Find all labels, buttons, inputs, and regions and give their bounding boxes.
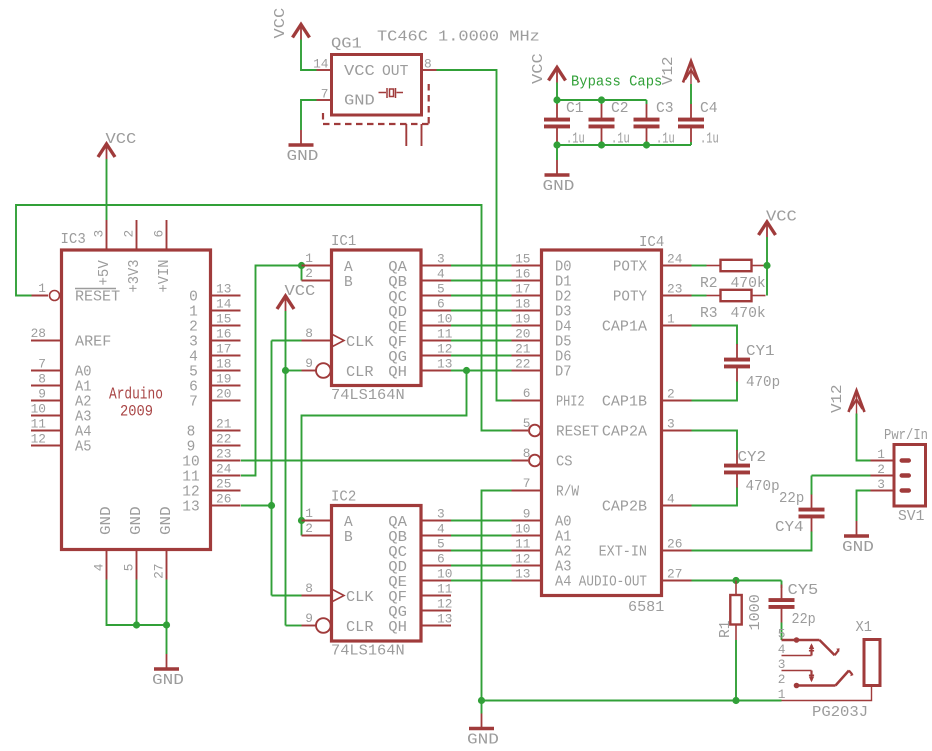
svg-text:3: 3: [189, 335, 198, 351]
svg-text:27: 27: [667, 567, 682, 582]
IC 74LS164N IC1 box: [332, 250, 422, 386]
wire QH to IC2 A B cascade: [302, 371, 467, 536]
wire VCC bus top of bypass caps: [557, 83, 647, 105]
svg-text:10: 10: [182, 455, 199, 471]
svg-text:1: 1: [778, 687, 786, 702]
svg-text:1000: 1000: [747, 594, 764, 630]
svg-text:RESET: RESET: [75, 290, 120, 306]
junction bottom bus at C2: [598, 141, 605, 148]
svg-text:6581: 6581: [628, 599, 664, 616]
svg-text:POTY: POTY: [613, 290, 647, 306]
IC3 right pins 13-20 digital 0-7: [189, 282, 240, 411]
svg-text:CAP1B: CAP1B: [602, 395, 647, 411]
svg-text:3: 3: [778, 657, 786, 672]
svg-text:2: 2: [778, 672, 786, 687]
svg-text:2: 2: [189, 320, 198, 336]
capacitor CY2: [724, 449, 766, 488]
svg-text:CLK: CLK: [346, 335, 374, 351]
svg-text:17: 17: [515, 282, 530, 297]
svg-text:A5: A5: [75, 440, 92, 456]
svg-text:GND: GND: [152, 672, 184, 689]
wire R/W to ground bus: [482, 491, 512, 701]
IC4 pin 6 PHI2: [512, 386, 585, 411]
VCC symbol above IC1 CLR: [277, 283, 315, 311]
IC2 pin 8 CLK: [302, 581, 374, 606]
wire VCC to IC1 CLR and IC2 CLR: [286, 311, 302, 626]
svg-text:3: 3: [437, 252, 445, 267]
svg-text:470k: 470k: [731, 305, 766, 322]
svg-text:VCC: VCC: [285, 283, 316, 300]
ground symbol below SV1: [842, 521, 874, 556]
capacitor C3: [634, 100, 674, 142]
IC4 pin 8 CS: [512, 446, 573, 471]
svg-text:+5V: +5V: [97, 260, 113, 286]
wire QG1 pin 7 to GND: [301, 100, 317, 130]
svg-text:QA: QA: [388, 515, 407, 531]
svg-text:AUDIO-OUT: AUDIO-OUT: [579, 575, 647, 591]
svg-text:9: 9: [305, 356, 313, 371]
IC3 pin 3 +5V: [92, 220, 114, 286]
svg-text:Pwr/In: Pwr/In: [884, 427, 928, 444]
svg-text:QF: QF: [388, 335, 407, 351]
IC1 pin 8 CLK: [302, 326, 374, 351]
svg-text:PG203J: PG203J: [812, 704, 868, 721]
svg-text:9: 9: [305, 611, 313, 626]
IC3 value Arduino 2009: [109, 386, 163, 421]
svg-text:5: 5: [189, 365, 198, 381]
svg-text:A2: A2: [555, 545, 572, 561]
jack X1 PG203J: [778, 627, 880, 703]
svg-text:PHI2: PHI2: [556, 395, 585, 411]
svg-text:C2: C2: [611, 100, 629, 117]
svg-text:QD: QD: [388, 560, 407, 576]
svg-text:QB: QB: [388, 530, 407, 546]
svg-text:13: 13: [437, 612, 452, 627]
svg-text:QB: QB: [388, 275, 407, 291]
svg-text:CAP2B: CAP2B: [602, 500, 647, 516]
svg-text:74LS164N: 74LS164N: [331, 643, 405, 660]
IC3 pin 6 +VIN: [152, 220, 174, 293]
svg-text:CLR: CLR: [346, 620, 374, 636]
svg-text:13: 13: [182, 500, 199, 516]
QG1 dashed package outline: [323, 84, 429, 146]
svg-text:3: 3: [437, 507, 445, 522]
svg-text:4: 4: [667, 492, 675, 507]
svg-text:13: 13: [437, 357, 452, 372]
IC2 pin 2 B: [302, 521, 354, 546]
IC3 pin 28 AREF: [31, 326, 112, 351]
svg-text:22: 22: [515, 357, 530, 372]
svg-text:D6: D6: [555, 350, 572, 366]
wire RESET net IC3 pin1 to IC4 RESET: [16, 205, 512, 431]
wire CY2 to CAP2B: [692, 488, 738, 506]
svg-text:CY5: CY5: [788, 582, 819, 599]
junction GND at pin 27: [163, 621, 170, 628]
junction bottom bus at C1: [553, 141, 560, 148]
svg-text:16: 16: [216, 327, 231, 342]
svg-text:6: 6: [152, 230, 167, 238]
svg-text:R1: R1: [717, 620, 734, 638]
svg-text:26: 26: [667, 537, 682, 552]
resistor R3: [707, 295, 721, 297]
junction GND at pin 5: [133, 621, 140, 628]
svg-text:R2: R2: [700, 275, 718, 292]
svg-text:A4: A4: [555, 575, 572, 591]
svg-text:5: 5: [523, 416, 531, 431]
IC4 pin 7 R/W: [512, 476, 580, 501]
VCC symbol at bypass caps: [530, 53, 566, 84]
svg-text:QH: QH: [388, 365, 407, 381]
svg-text:IC2: IC2: [331, 489, 356, 506]
svg-text:1: 1: [305, 506, 313, 521]
svg-text:17: 17: [216, 342, 231, 357]
svg-text:5: 5: [437, 282, 445, 297]
svg-text:9: 9: [523, 507, 531, 522]
svg-text:1: 1: [189, 305, 198, 321]
svg-text:CAP1A: CAP1A: [602, 320, 647, 336]
svg-text:13: 13: [515, 567, 530, 582]
connector SV1 Pwr/In: [871, 445, 926, 507]
wire MOSI net IC3 pin24 to IC1 A B: [241, 266, 302, 476]
svg-text:10: 10: [437, 312, 452, 327]
svg-text:1: 1: [877, 447, 885, 462]
capacitor C4: [678, 100, 718, 142]
capacitor CY4: [779, 490, 825, 532]
svg-text:2009: 2009: [120, 403, 153, 421]
svg-text:18: 18: [515, 297, 530, 312]
svg-text:.1u: .1u: [700, 131, 719, 148]
svg-text:TC46C 1.0000 MHz: TC46C 1.0000 MHz: [377, 29, 540, 46]
svg-text:12: 12: [515, 552, 530, 567]
svg-text:8: 8: [187, 425, 196, 441]
VCC symbol at QG1: [272, 8, 310, 40]
svg-text:2: 2: [667, 387, 675, 402]
svg-text:15: 15: [216, 312, 231, 327]
svg-text:A0: A0: [75, 365, 92, 381]
svg-text:B: B: [344, 275, 353, 291]
svg-text:B: B: [344, 530, 353, 546]
svg-text:470p: 470p: [746, 478, 780, 495]
svg-text:74LS164N: 74LS164N: [331, 387, 405, 404]
svg-text:5: 5: [437, 537, 445, 552]
svg-text:GND: GND: [287, 148, 319, 165]
svg-text:QF: QF: [388, 590, 407, 606]
svg-text:1: 1: [667, 312, 675, 327]
svg-text:12: 12: [31, 432, 46, 447]
svg-text:A4: A4: [75, 425, 92, 441]
svg-text:CY4: CY4: [775, 519, 804, 536]
svg-text:10: 10: [515, 522, 530, 537]
svg-text:D2: D2: [555, 290, 572, 306]
svg-text:VCC: VCC: [766, 209, 797, 226]
svg-text:12: 12: [437, 342, 452, 357]
IC 6581 IC4 box: [542, 250, 662, 596]
IC4 pins 9-13 A0-A4: [512, 507, 572, 591]
wire CY4 to EXT-IN: [692, 532, 812, 551]
svg-text:CLK: CLK: [346, 590, 374, 606]
svg-text:A3: A3: [75, 410, 92, 426]
wire POTY to R3: [692, 295, 707, 297]
svg-text:11: 11: [182, 470, 199, 486]
svg-text:3: 3: [92, 230, 107, 238]
svg-text:QA: QA: [388, 260, 407, 276]
svg-text:1: 1: [38, 281, 46, 296]
svg-text:4: 4: [437, 267, 445, 282]
svg-text:V12: V12: [829, 384, 846, 413]
wire R1 to ground bus: [735, 640, 737, 701]
svg-text:14: 14: [216, 297, 232, 312]
svg-text:0: 0: [189, 290, 198, 306]
svg-text:QE: QE: [388, 320, 407, 336]
svg-text:4: 4: [778, 642, 786, 657]
svg-text:9: 9: [187, 440, 196, 456]
svg-text:CY2: CY2: [738, 449, 767, 466]
wire IC3 GND pins to ground: [107, 580, 167, 655]
svg-text:470p: 470p: [746, 374, 780, 391]
svg-text:7: 7: [321, 87, 329, 102]
svg-text:SV1: SV1: [898, 508, 924, 525]
svg-text:3: 3: [667, 417, 675, 432]
svg-text:23: 23: [216, 447, 231, 462]
svg-text:QD: QD: [388, 305, 407, 321]
svg-text:5: 5: [778, 627, 786, 642]
svg-text:8: 8: [424, 57, 432, 72]
svg-text:VCC: VCC: [530, 53, 547, 84]
IC2 pins QA-QH outputs: [388, 507, 452, 637]
svg-text:+VIN: +VIN: [157, 260, 173, 293]
QG1 pin 14 VCC: [313, 57, 375, 81]
svg-text:IC3: IC3: [61, 231, 86, 248]
svg-text:CAP2A: CAP2A: [602, 425, 647, 441]
svg-text:VCC: VCC: [106, 131, 137, 148]
svg-text:19: 19: [515, 312, 530, 327]
IC4 pins D0-D7: [512, 252, 572, 381]
IC3 pin 2 +3V3: [122, 220, 144, 293]
svg-text:24: 24: [667, 252, 683, 267]
IC1 pins QA-QH outputs: [388, 252, 452, 382]
junction bottom bus at C3: [643, 141, 650, 148]
svg-text:20: 20: [216, 387, 231, 402]
IC3 pins 7-12 A0-A5: [31, 357, 92, 456]
svg-text:4: 4: [437, 522, 445, 537]
svg-text:GND: GND: [467, 732, 499, 749]
wire CY5 to jack tip: [781, 623, 783, 641]
svg-text:23: 23: [667, 282, 682, 297]
svg-text:C1: C1: [566, 100, 584, 117]
IC4 right pins: [579, 252, 692, 591]
svg-text:11: 11: [515, 537, 531, 552]
svg-text:A: A: [344, 260, 353, 276]
wire SV1 pin2 to CY4: [812, 476, 871, 495]
ground symbol below IC3: [152, 654, 184, 689]
QG1 pin 8 OUT: [382, 57, 437, 81]
resistor R1: [730, 581, 741, 641]
svg-text:4: 4: [189, 350, 198, 366]
svg-text:D4: D4: [555, 320, 572, 336]
IC1 pin 2 B: [302, 266, 354, 291]
IC1 pin 9 CLR: [302, 356, 374, 381]
svg-text:10: 10: [437, 567, 452, 582]
svg-text:EXT-IN: EXT-IN: [599, 545, 647, 561]
svg-text:22p: 22p: [792, 611, 816, 628]
junction top bus at C1: [553, 96, 560, 103]
ground symbol bottom center: [467, 701, 499, 749]
svg-text:A3: A3: [555, 560, 572, 576]
svg-text:R3: R3: [700, 305, 718, 322]
svg-text:D3: D3: [555, 305, 572, 321]
svg-text:22p: 22p: [779, 490, 804, 507]
svg-text:D5: D5: [555, 335, 572, 351]
svg-text:26: 26: [216, 492, 231, 507]
svg-text:POTX: POTX: [613, 260, 647, 276]
svg-text:R/W: R/W: [556, 485, 579, 501]
wire SCK net IC3 pin26 to IC1 IC2 CLK: [241, 341, 302, 596]
svg-text:QE: QE: [388, 575, 407, 591]
svg-text:25: 25: [216, 477, 231, 492]
svg-text:7: 7: [189, 395, 198, 411]
svg-text:Bypass Caps: Bypass Caps: [571, 74, 662, 91]
svg-text:D7: D7: [555, 365, 572, 381]
svg-text:8: 8: [305, 326, 313, 341]
wire AUDIO-OUT net: [692, 581, 782, 589]
svg-text:GND: GND: [129, 506, 145, 535]
svg-text:10: 10: [31, 402, 46, 417]
capacitor C2: [589, 100, 629, 142]
IC Arduino IC3 box: [62, 250, 211, 550]
junction IC1 pins A B: [298, 262, 305, 269]
svg-text:CLR: CLR: [346, 365, 374, 381]
VCC symbol above IC3: [98, 131, 136, 159]
svg-text:11: 11: [437, 582, 453, 597]
wire data bus IC1 to IC4 D0-D7: [451, 266, 512, 371]
svg-text:8: 8: [523, 446, 531, 461]
svg-text:GND: GND: [344, 94, 375, 110]
svg-text:A: A: [344, 515, 353, 531]
svg-text:AREF: AREF: [75, 335, 111, 351]
IC3 pin 1 RESET: [32, 281, 121, 306]
junction SCK net: [268, 502, 275, 509]
wire CY1 to CAP1B: [692, 382, 738, 401]
svg-text:18: 18: [216, 357, 231, 372]
svg-text:A1: A1: [555, 530, 572, 546]
wire VCC to R2 R3: [766, 237, 768, 296]
svg-text:QC: QC: [388, 290, 407, 306]
wire CAP2A to CY2: [692, 431, 738, 451]
svg-text:11: 11: [31, 417, 47, 432]
svg-text:RESET: RESET: [556, 425, 599, 441]
wire VCC to IC3 pin 3: [106, 159, 108, 220]
svg-text:28: 28: [31, 326, 46, 341]
svg-text:GND: GND: [159, 506, 175, 535]
IC2 pin 9 CLR: [302, 611, 374, 636]
svg-text:D0: D0: [555, 260, 572, 276]
svg-text:7: 7: [38, 357, 46, 372]
V12 symbol at bypass caps: [660, 56, 699, 85]
junction IC2 pins A B: [298, 517, 305, 524]
svg-text:GND: GND: [99, 506, 115, 535]
svg-text:12: 12: [437, 597, 452, 612]
IC1 pin 1 A: [302, 251, 354, 276]
svg-text:27: 27: [152, 564, 167, 579]
svg-text:C3: C3: [656, 100, 674, 117]
wire POTX to R2: [692, 265, 707, 267]
svg-text:VCC: VCC: [272, 8, 289, 39]
svg-text:11: 11: [437, 327, 453, 342]
svg-text:CY1: CY1: [746, 343, 775, 360]
junction ground bus left: [478, 697, 485, 704]
svg-text:GND: GND: [543, 178, 575, 195]
svg-text:GND: GND: [842, 539, 874, 556]
svg-text:3: 3: [877, 477, 885, 492]
svg-text:VCC: VCC: [344, 64, 375, 80]
svg-text:A0: A0: [555, 515, 572, 531]
svg-text:D1: D1: [555, 275, 572, 291]
svg-text:V12: V12: [660, 56, 677, 85]
capacitor C1: [544, 100, 584, 142]
junction VCC at IC1 CLR: [282, 367, 289, 374]
resistor R2: [707, 265, 721, 267]
svg-text:CS: CS: [556, 455, 573, 471]
ground symbol below bypass caps: [543, 160, 575, 195]
svg-text:6: 6: [523, 386, 531, 401]
svg-text:QG1: QG1: [331, 36, 362, 53]
junction ground bus at R1: [732, 697, 739, 704]
svg-text:A1: A1: [75, 380, 92, 396]
svg-text:A2: A2: [75, 395, 92, 411]
wire QG1 OUT to IC4 PHI2: [437, 70, 512, 401]
svg-text:13: 13: [216, 282, 231, 297]
IC2 pin 1 A: [302, 506, 354, 531]
svg-text:+3V3: +3V3: [127, 260, 143, 293]
svg-text:IC4: IC4: [639, 234, 664, 251]
IC4 pin 5 RESET: [512, 416, 600, 441]
V12 symbol above SV1: [829, 384, 865, 413]
svg-text:6: 6: [437, 297, 445, 312]
svg-text:8: 8: [305, 581, 313, 596]
svg-text:QH: QH: [388, 620, 407, 636]
svg-text:QC: QC: [388, 545, 407, 561]
wire address bus IC2 to IC4 A0-A4: [451, 521, 512, 581]
wire V12 to SV1 pin1: [857, 414, 871, 461]
wire CS net IC3 pin23 to IC4 CS: [241, 460, 512, 462]
ground symbol below QG1: [287, 130, 319, 165]
svg-text:12: 12: [182, 485, 199, 501]
wire CAP1A to CY1: [692, 326, 738, 345]
capacitor CY1: [724, 343, 775, 382]
capacitor CY5: [769, 582, 819, 623]
svg-text:8: 8: [38, 372, 46, 387]
svg-text:16: 16: [515, 267, 530, 282]
junction QH cascade: [463, 367, 470, 374]
svg-text:2: 2: [122, 230, 137, 238]
QG1 pin 7 GND: [317, 87, 375, 110]
svg-text:QG: QG: [388, 350, 407, 366]
VCC symbol above R2: [759, 209, 797, 238]
IC 74LS164N IC2 box: [332, 506, 422, 642]
svg-text:6: 6: [437, 552, 445, 567]
svg-text:2: 2: [877, 462, 885, 477]
junction VCC at R2: [763, 262, 770, 269]
wire V12 to C4: [690, 84, 692, 104]
svg-text:22: 22: [216, 432, 231, 447]
wire VCC to QG1 pin 14: [301, 40, 317, 71]
svg-text:19: 19: [216, 372, 231, 387]
wire GND bus bottom of bypass caps: [557, 142, 691, 160]
svg-text:2: 2: [305, 521, 313, 536]
svg-text:2: 2: [305, 266, 313, 281]
svg-text:QG: QG: [388, 605, 407, 621]
svg-text:C4: C4: [700, 100, 718, 117]
